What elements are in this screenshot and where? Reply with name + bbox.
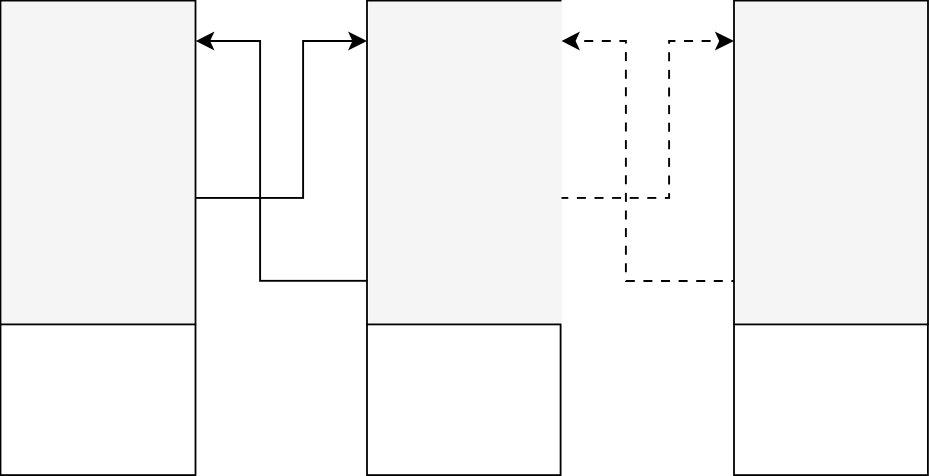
box A bottom (white) bbox=[1, 324, 196, 475]
arrowhead into B (dashed wire) bbox=[562, 32, 580, 51]
container A top (gray body) bbox=[2, 2, 194, 325]
wire C→B (dashed connector) bbox=[576, 41, 734, 281]
arrowhead into C (dashed wire) bbox=[715, 32, 734, 51]
wire B→A (solid connector) bbox=[210, 41, 367, 281]
container C top (gray body) bbox=[735, 2, 926, 323]
box C bottom (white) bbox=[734, 324, 928, 475]
wire B→C (dashed connector) bbox=[562, 41, 720, 198]
container C border bbox=[734, 1, 928, 326]
wire A→B (solid connector) bbox=[196, 41, 353, 198]
arrowhead into A bbox=[196, 32, 215, 51]
container A border bbox=[1, 1, 196, 326]
container B border (left + top only) bbox=[367, 1, 562, 326]
box B bottom (white) bbox=[367, 324, 561, 475]
arrowhead into B bbox=[348, 32, 367, 51]
container B top (gray body, no right border) bbox=[368, 2, 562, 323]
